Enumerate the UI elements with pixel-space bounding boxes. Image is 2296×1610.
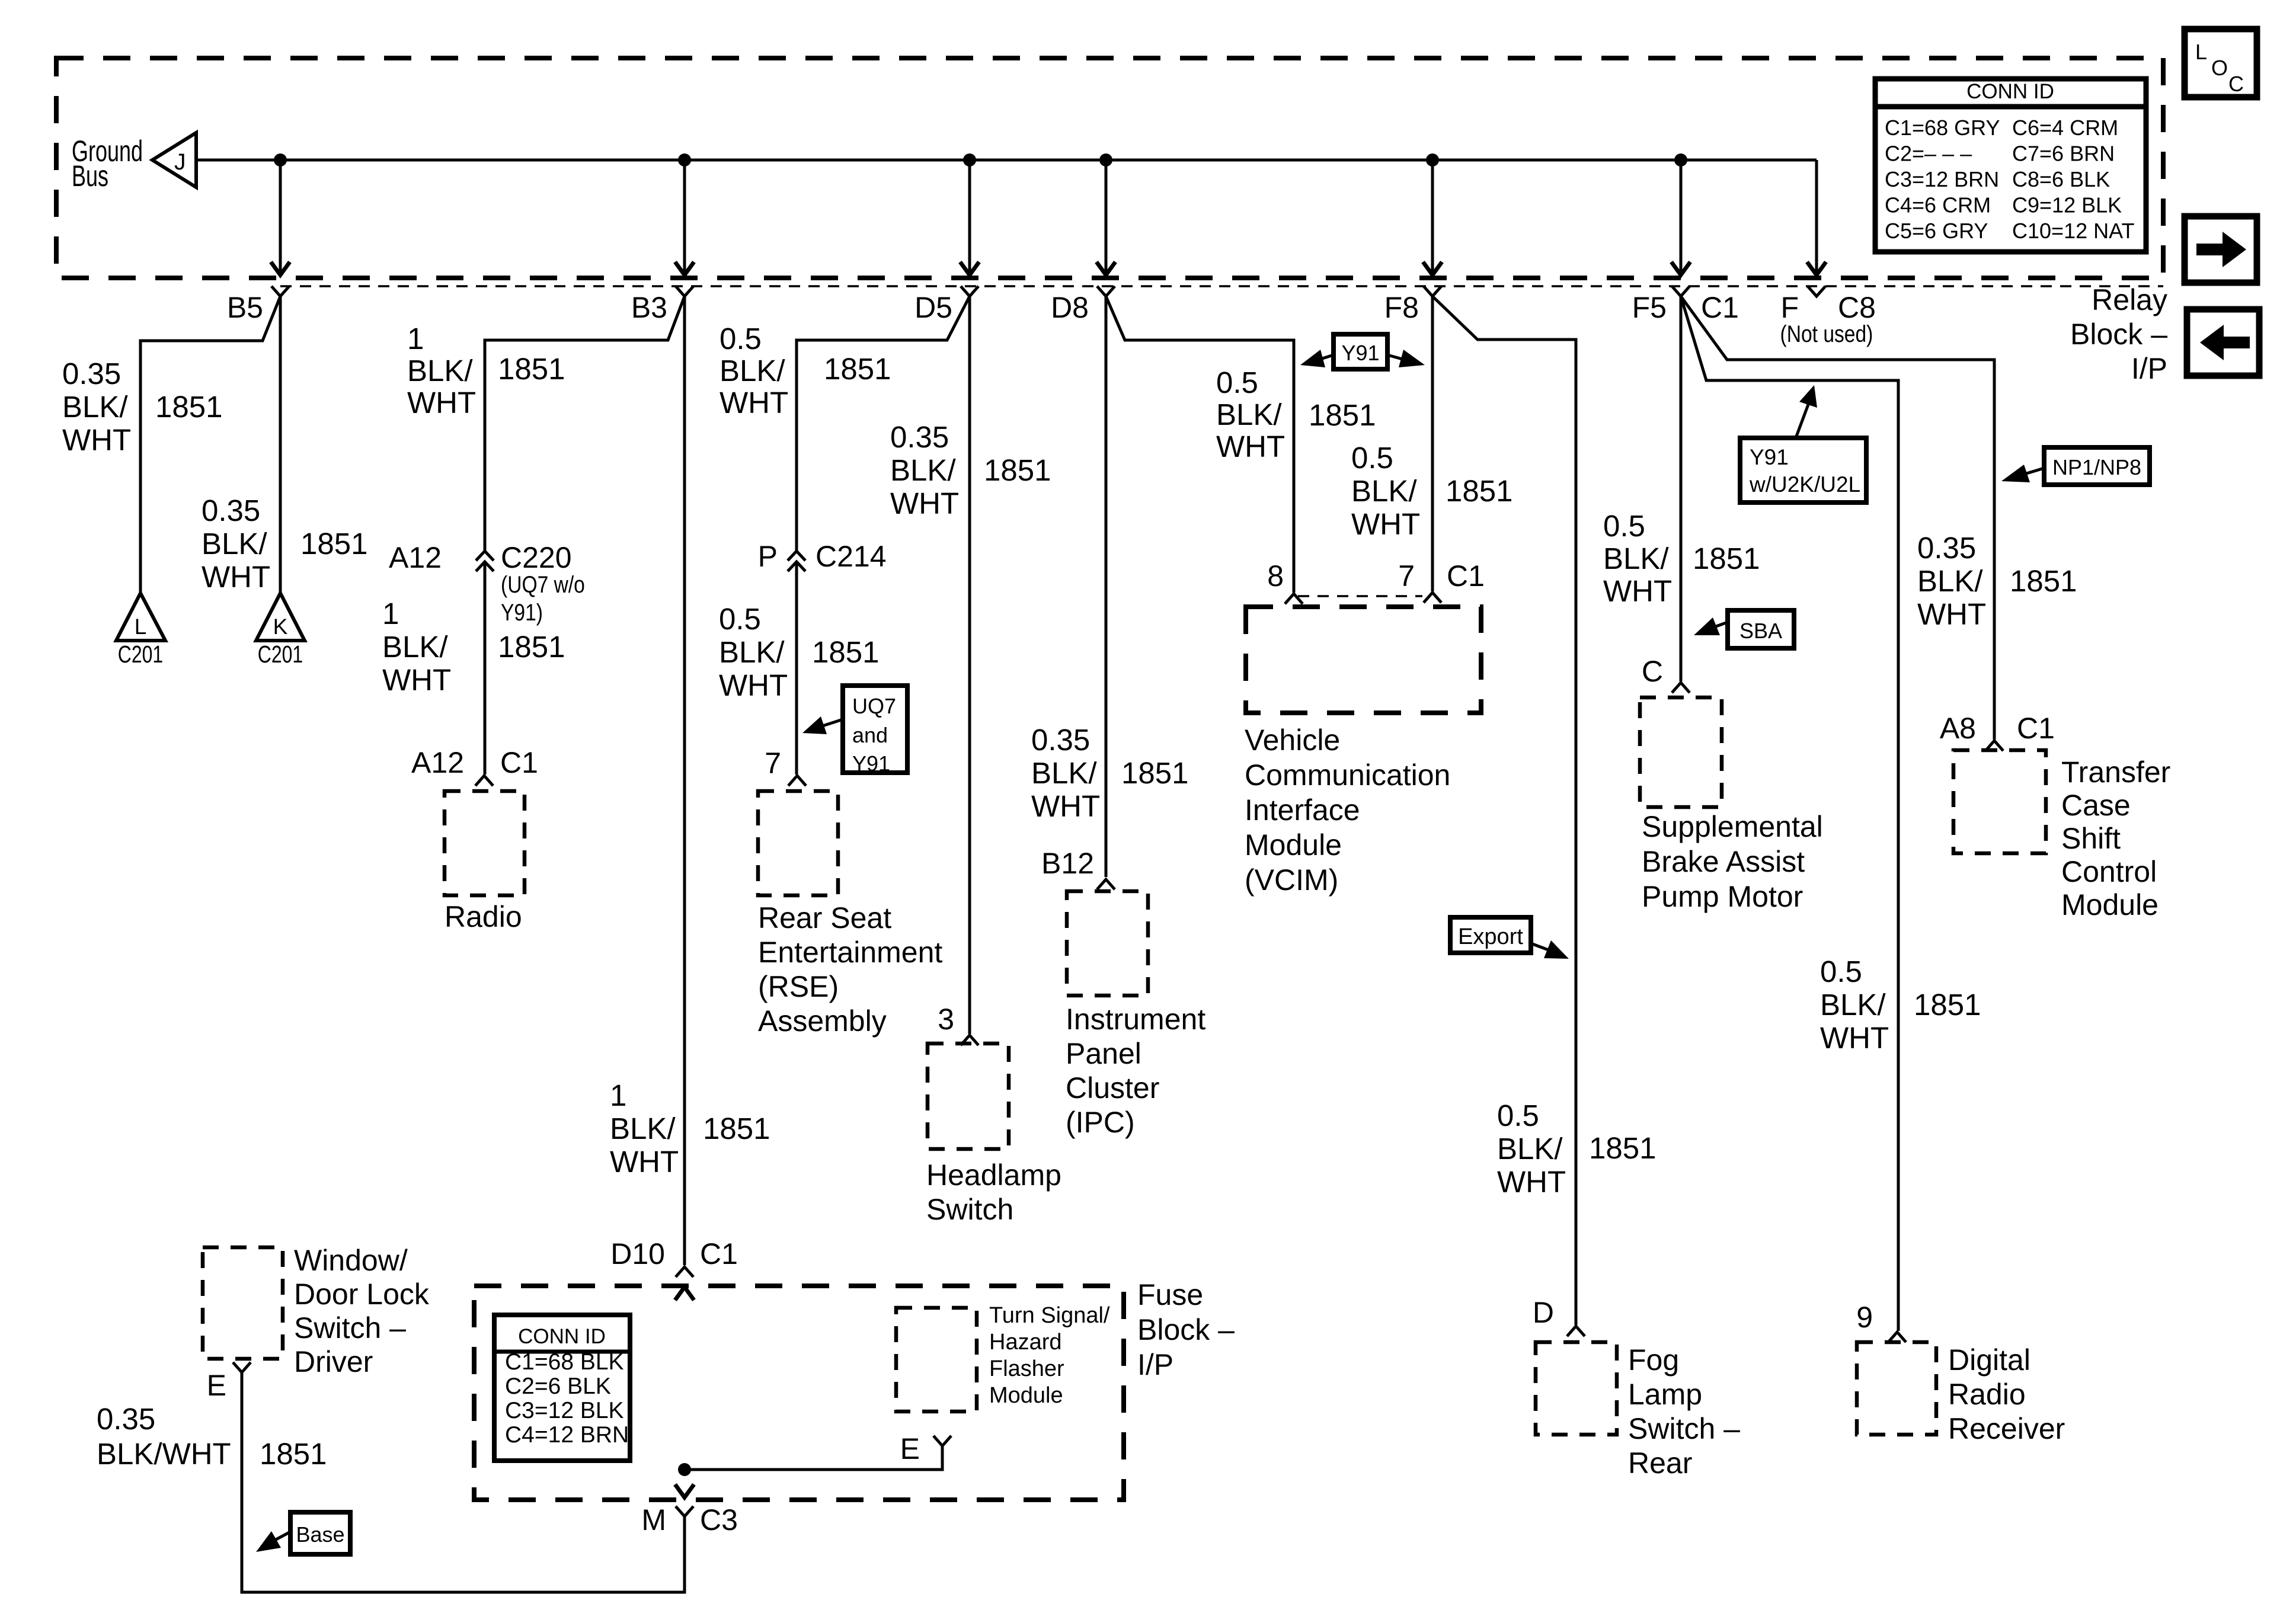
transfer case component box bbox=[1953, 750, 2046, 853]
svg-text:WHT: WHT bbox=[1917, 597, 1986, 631]
svg-text:C1: C1 bbox=[1701, 291, 1739, 324]
RSE component box bbox=[758, 791, 838, 895]
svg-text:C4=12 BRN: C4=12 BRN bbox=[505, 1422, 629, 1448]
relay block I/P boundary (thin dashed line) bbox=[280, 285, 2163, 287]
svg-text:CONN ID: CONN ID bbox=[518, 1325, 606, 1348]
fuse block pin M chevron bbox=[676, 1506, 693, 1516]
arrow into relay block at F8 bbox=[1423, 262, 1442, 275]
svg-text:WHT: WHT bbox=[1820, 1021, 1889, 1055]
svg-text:Y91): Y91) bbox=[501, 599, 543, 625]
svg-text:1: 1 bbox=[407, 322, 424, 356]
svg-text:Y91: Y91 bbox=[1750, 445, 1789, 469]
svg-text:0.35: 0.35 bbox=[202, 494, 260, 527]
svg-text:1851: 1851 bbox=[1446, 474, 1512, 508]
svg-text:Fuse: Fuse bbox=[1137, 1278, 1203, 1311]
callout arrow Y91 right bbox=[1387, 355, 1402, 359]
svg-text:1851: 1851 bbox=[155, 390, 222, 424]
svg-text:BLK/: BLK/ bbox=[1603, 542, 1669, 575]
svg-text:0.5: 0.5 bbox=[1497, 1099, 1539, 1132]
VCIM pins thin dashed link bbox=[1298, 595, 1422, 597]
ground symbol triangle J bbox=[152, 133, 196, 187]
svg-text:Switch –: Switch – bbox=[294, 1311, 406, 1345]
callout Base bbox=[290, 1512, 350, 1554]
svg-text:BLK/: BLK/ bbox=[1031, 756, 1097, 790]
svg-text:1851: 1851 bbox=[703, 1112, 770, 1145]
svg-text:1851: 1851 bbox=[2010, 564, 2077, 598]
svg-text:SBA: SBA bbox=[1739, 619, 1782, 643]
svg-text:Rear: Rear bbox=[1628, 1446, 1692, 1480]
svg-text:L: L bbox=[135, 614, 147, 639]
callout arrow Y91 w/U2K/U2L bbox=[1796, 403, 1809, 438]
fuse block pin D10 chevron bbox=[676, 1267, 693, 1277]
svg-text:BLK/: BLK/ bbox=[1917, 564, 1983, 598]
svg-text:Export: Export bbox=[1458, 924, 1523, 949]
callout NP1/NP8 bbox=[2044, 447, 2150, 485]
radio pin chevron bbox=[475, 776, 493, 786]
svg-text:WHT: WHT bbox=[1351, 507, 1420, 541]
turn signal flasher component box bbox=[896, 1308, 977, 1411]
bus drop to F C8 (not used) bbox=[1815, 160, 1818, 271]
IPC component box bbox=[1067, 891, 1148, 996]
junction dot in fuse block bbox=[678, 1463, 691, 1476]
svg-text:C9=12 BLK: C9=12 BLK bbox=[2012, 193, 2122, 217]
svg-text:Assembly: Assembly bbox=[758, 1004, 887, 1038]
ground bus wire bbox=[196, 159, 1817, 162]
svg-text:Radio: Radio bbox=[1948, 1378, 2026, 1411]
svg-text:7: 7 bbox=[765, 747, 781, 780]
inline connector C214 pin P bbox=[788, 551, 805, 561]
svg-text:B12: B12 bbox=[1041, 847, 1094, 880]
svg-text:BLK/: BLK/ bbox=[407, 354, 473, 388]
svg-text:C1: C1 bbox=[500, 746, 538, 779]
svg-text:BLK/WHT: BLK/WHT bbox=[97, 1437, 231, 1471]
svg-text:C2=– – –: C2=– – – bbox=[1885, 142, 1972, 166]
svg-text:1851: 1851 bbox=[300, 527, 367, 561]
svg-text:1851: 1851 bbox=[260, 1437, 327, 1471]
svg-text:B3: B3 bbox=[631, 291, 667, 324]
svg-text:Flasher: Flasher bbox=[989, 1356, 1064, 1381]
svg-text:NP1/NP8: NP1/NP8 bbox=[2052, 455, 2141, 479]
svg-text:3: 3 bbox=[938, 1003, 954, 1036]
svg-text:(VCIM): (VCIM) bbox=[1245, 863, 1338, 897]
svg-text:C1: C1 bbox=[1447, 559, 1485, 593]
svg-text:C3=12 BRN: C3=12 BRN bbox=[1885, 167, 1999, 191]
relay block pin chevron F8 bbox=[1424, 286, 1441, 296]
svg-text:C220: C220 bbox=[501, 541, 572, 574]
VCIM pin 8 chevron bbox=[1285, 594, 1303, 604]
wire M C3 to window door lock switch bbox=[242, 1372, 685, 1592]
svg-text:BLK/: BLK/ bbox=[610, 1112, 676, 1145]
svg-text:CONN ID: CONN ID bbox=[1966, 80, 2054, 103]
svg-text:BLK/: BLK/ bbox=[1351, 474, 1417, 508]
svg-text:A8: A8 bbox=[1940, 712, 1976, 745]
wire B3 main to fuse block bbox=[683, 296, 686, 1265]
svg-text:D5: D5 bbox=[914, 291, 952, 324]
svg-text:L: L bbox=[2195, 40, 2207, 64]
svg-text:Digital: Digital bbox=[1948, 1343, 2030, 1377]
bus drop wire to B5 bbox=[279, 160, 282, 271]
junction dot on ground bus at B5 bbox=[274, 153, 287, 167]
relay block pin chevron D5 bbox=[961, 286, 978, 296]
svg-text:A12: A12 bbox=[411, 746, 464, 779]
svg-text:0.5: 0.5 bbox=[1351, 441, 1393, 475]
svg-text:1851: 1851 bbox=[498, 630, 565, 664]
svg-text:0.35: 0.35 bbox=[97, 1402, 155, 1436]
svg-text:Door Lock: Door Lock bbox=[294, 1278, 430, 1311]
wire D8 main to IPC bbox=[1105, 296, 1108, 877]
VCIM pin 7 chevron bbox=[1424, 593, 1441, 603]
svg-text:C8: C8 bbox=[1838, 291, 1876, 324]
svg-text:Transfer: Transfer bbox=[2061, 756, 2170, 789]
svg-text:(UQ7 w/o: (UQ7 w/o bbox=[501, 571, 585, 597]
svg-text:WHT: WHT bbox=[1216, 430, 1285, 463]
wire radio branch below connector C220 bbox=[484, 561, 487, 774]
ground bus dashed boundary box bbox=[56, 58, 2163, 278]
svg-text:1851: 1851 bbox=[812, 635, 879, 669]
svg-text:M: M bbox=[641, 1503, 666, 1537]
svg-text:Brake Assist: Brake Assist bbox=[1642, 845, 1805, 878]
svg-text:C: C bbox=[1642, 655, 1663, 688]
svg-text:Vehicle: Vehicle bbox=[1245, 724, 1340, 757]
svg-text:C1=68 BLK: C1=68 BLK bbox=[505, 1349, 624, 1375]
callout Y91 (two arrows) bbox=[1334, 334, 1387, 369]
svg-text:Relay: Relay bbox=[2092, 283, 2167, 316]
svg-text:9: 9 bbox=[1856, 1301, 1873, 1334]
svg-text:Radio: Radio bbox=[445, 900, 522, 933]
svg-text:F8: F8 bbox=[1384, 291, 1419, 324]
svg-text:D: D bbox=[1533, 1296, 1554, 1329]
svg-text:Window/: Window/ bbox=[294, 1244, 408, 1277]
IPC pin chevron bbox=[1097, 879, 1115, 889]
svg-text:E: E bbox=[900, 1432, 920, 1465]
svg-text:0.5: 0.5 bbox=[719, 602, 761, 636]
svg-text:BLK/: BLK/ bbox=[1216, 398, 1282, 431]
bus drop wire to D8 bbox=[1105, 160, 1108, 271]
callout Y91 w/U2K/U2L bbox=[1740, 438, 1866, 502]
page-back arrow box bbox=[2187, 309, 2259, 376]
svg-text:Control: Control bbox=[2061, 855, 2157, 888]
radio component box bbox=[445, 791, 525, 895]
svg-text:Module: Module bbox=[1245, 828, 1342, 862]
svg-text:WHT: WHT bbox=[1497, 1165, 1566, 1199]
wire B5 to splice bbox=[279, 296, 282, 593]
svg-text:1851: 1851 bbox=[824, 352, 891, 386]
svg-text:0.35: 0.35 bbox=[62, 357, 121, 391]
svg-text:1851: 1851 bbox=[1914, 988, 1981, 1022]
svg-text:BLK/: BLK/ bbox=[720, 354, 785, 388]
wire B5 left branch bbox=[140, 296, 280, 593]
svg-text:1851: 1851 bbox=[1309, 398, 1376, 432]
svg-text:P: P bbox=[758, 540, 778, 573]
svg-text:BLK/: BLK/ bbox=[890, 453, 956, 487]
callout arrow UQ7 bbox=[819, 719, 843, 727]
svg-text:C214: C214 bbox=[816, 540, 887, 573]
arrow into relay block at D8 bbox=[1096, 262, 1115, 275]
junction dot on ground bus at F5 bbox=[1674, 153, 1687, 167]
wire C1 branch to transfer case module bbox=[1681, 296, 1994, 740]
relay block pin chevron D8 bbox=[1097, 286, 1115, 296]
svg-text:Shift: Shift bbox=[2061, 822, 2121, 855]
CONN ID table fuse block bbox=[494, 1315, 630, 1461]
arrow into relay block at F5 bbox=[1671, 262, 1690, 275]
headlamp switch component box bbox=[928, 1044, 1009, 1149]
svg-text:Lamp: Lamp bbox=[1628, 1378, 1702, 1411]
svg-text:Y91: Y91 bbox=[1341, 341, 1379, 365]
svg-text:0.35: 0.35 bbox=[890, 420, 949, 454]
wire F8 branch to fog lamp switch bbox=[1432, 296, 1576, 1325]
svg-text:WHT: WHT bbox=[890, 486, 959, 520]
wire RSE branch below connector C214 bbox=[795, 561, 798, 774]
digital radio component box bbox=[1857, 1342, 1936, 1435]
relay block pin chevron F5 bbox=[1672, 286, 1690, 296]
svg-text:1851: 1851 bbox=[1121, 756, 1188, 790]
svg-text:J: J bbox=[174, 149, 186, 175]
svg-text:Block –: Block – bbox=[1137, 1313, 1235, 1346]
svg-text:C2=6 BLK: C2=6 BLK bbox=[505, 1374, 611, 1399]
svg-text:7: 7 bbox=[1398, 559, 1415, 593]
svg-text:Module: Module bbox=[2061, 888, 2159, 921]
svg-text:C3: C3 bbox=[700, 1503, 738, 1537]
svg-text:Cluster: Cluster bbox=[1066, 1071, 1159, 1105]
svg-text:1: 1 bbox=[382, 597, 399, 630]
svg-text:WHT: WHT bbox=[382, 663, 451, 697]
svg-text:Receiver: Receiver bbox=[1948, 1412, 2065, 1445]
svg-text:0.5: 0.5 bbox=[1820, 955, 1862, 988]
svg-text:I/P: I/P bbox=[1137, 1348, 1173, 1381]
window switch pin E chevron bbox=[233, 1362, 251, 1372]
svg-text:Switch: Switch bbox=[926, 1193, 1013, 1226]
arrow into relay block at B5 bbox=[271, 262, 290, 275]
callout UQ7 and Y91 bbox=[843, 686, 907, 773]
svg-text:Interface: Interface bbox=[1245, 793, 1360, 827]
svg-text:E: E bbox=[207, 1369, 226, 1402]
junction dot on ground bus at D5 bbox=[963, 153, 976, 167]
svg-text:BLK/: BLK/ bbox=[202, 527, 267, 561]
bus drop wire to F8 bbox=[1431, 160, 1434, 271]
svg-text:8: 8 bbox=[1267, 559, 1284, 593]
svg-text:C4=6 CRM: C4=6 CRM bbox=[1885, 193, 1991, 217]
arrow out of fuse block at M bbox=[675, 1484, 694, 1497]
svg-text:Pump Motor: Pump Motor bbox=[1642, 880, 1803, 913]
svg-text:Instrument: Instrument bbox=[1066, 1003, 1205, 1036]
svg-text:BLK/: BLK/ bbox=[1497, 1132, 1563, 1166]
svg-text:F5: F5 bbox=[1632, 291, 1667, 324]
transfer case pin chevron bbox=[1985, 741, 2003, 751]
svg-text:C1: C1 bbox=[700, 1237, 738, 1270]
svg-text:1851: 1851 bbox=[1693, 542, 1760, 575]
svg-text:WHT: WHT bbox=[1031, 789, 1100, 823]
svg-text:C201: C201 bbox=[258, 641, 303, 668]
wire C1 branch to digital radio receiver bbox=[1681, 296, 1898, 1331]
arrow into relay block at F bbox=[1807, 262, 1826, 275]
svg-text:WHT: WHT bbox=[1603, 574, 1672, 608]
svg-text:(IPC): (IPC) bbox=[1066, 1106, 1135, 1139]
svg-text:F: F bbox=[1780, 291, 1799, 324]
svg-text:Supplemental: Supplemental bbox=[1642, 810, 1823, 843]
svg-text:D10: D10 bbox=[610, 1237, 665, 1270]
inline connector C220 pin A12 bbox=[476, 551, 494, 561]
svg-text:Y91: Y91 bbox=[852, 751, 890, 776]
bus drop wire to F5 bbox=[1680, 160, 1683, 271]
svg-text:WHT: WHT bbox=[720, 386, 788, 420]
svg-text:WHT: WHT bbox=[719, 668, 788, 702]
wire D8 branch to VCIM pin 8 bbox=[1106, 296, 1294, 593]
headlamp pin chevron bbox=[961, 1035, 978, 1045]
svg-text:O: O bbox=[2211, 56, 2228, 80]
ground ref triangle L bbox=[116, 593, 165, 641]
callout arrow Y91 left bbox=[1320, 355, 1334, 359]
relay block pin chevron B5 bbox=[271, 286, 289, 296]
svg-text:BLK/: BLK/ bbox=[719, 635, 785, 669]
wire B3 left branch to radio bbox=[485, 296, 685, 552]
svg-text:Case: Case bbox=[2061, 789, 2131, 822]
svg-text:1851: 1851 bbox=[1589, 1131, 1656, 1165]
svg-text:D8: D8 bbox=[1051, 291, 1089, 324]
arrow into fuse block at D10 bbox=[675, 1287, 694, 1300]
fuse block I/P dashed box bbox=[474, 1286, 1124, 1500]
wire D5 main to headlamp switch bbox=[968, 296, 971, 1034]
svg-text:UQ7: UQ7 bbox=[852, 694, 896, 718]
svg-text:Base: Base bbox=[296, 1522, 344, 1547]
arrow into relay block at B3 bbox=[675, 262, 694, 275]
bus drop wire to D5 bbox=[968, 160, 971, 271]
svg-text:w/U2K/U2L: w/U2K/U2L bbox=[1749, 472, 1860, 497]
SBA pump motor component box bbox=[1640, 697, 1722, 807]
fog lamp switch component box bbox=[1536, 1342, 1617, 1435]
svg-text:BLK/: BLK/ bbox=[62, 390, 128, 424]
svg-text:Bus: Bus bbox=[72, 160, 108, 193]
svg-text:Hazard: Hazard bbox=[989, 1330, 1062, 1355]
fog lamp pin chevron bbox=[1567, 1326, 1585, 1336]
svg-text:0.5: 0.5 bbox=[1216, 366, 1258, 399]
svg-text:0.5: 0.5 bbox=[1603, 509, 1645, 543]
digital radio pin chevron bbox=[1888, 1332, 1906, 1342]
page-forward arrow box bbox=[2185, 216, 2257, 283]
svg-text:BLK/: BLK/ bbox=[1820, 988, 1886, 1022]
svg-text:WHT: WHT bbox=[407, 386, 476, 420]
svg-text:B5: B5 bbox=[227, 291, 263, 324]
wire F5 to SBA pump motor bbox=[1680, 296, 1683, 681]
svg-text:Panel: Panel bbox=[1066, 1037, 1141, 1070]
svg-text:WHT: WHT bbox=[610, 1145, 679, 1179]
wire turn signal E to junction bbox=[685, 1446, 942, 1470]
window door lock switch component box bbox=[203, 1247, 283, 1359]
svg-text:C: C bbox=[2228, 72, 2244, 96]
svg-text:WHT: WHT bbox=[202, 560, 270, 594]
svg-text:1: 1 bbox=[610, 1078, 626, 1112]
svg-text:Communication: Communication bbox=[1245, 758, 1450, 792]
svg-text:C10=12 NAT: C10=12 NAT bbox=[2012, 219, 2134, 243]
svg-text:0.35: 0.35 bbox=[1031, 723, 1090, 757]
svg-text:I/P: I/P bbox=[2131, 352, 2167, 385]
svg-text:1851: 1851 bbox=[498, 352, 565, 386]
svg-text:0.5: 0.5 bbox=[720, 322, 762, 356]
svg-text:0.35: 0.35 bbox=[1917, 531, 1976, 565]
junction dot on ground bus at D8 bbox=[1099, 153, 1112, 167]
svg-text:(RSE): (RSE) bbox=[758, 970, 839, 1003]
wire D5 left branch to RSE bbox=[797, 296, 970, 552]
svg-text:A12: A12 bbox=[389, 541, 442, 574]
callout arrow Export bbox=[1531, 943, 1550, 950]
callout arrow Base bbox=[274, 1532, 290, 1541]
svg-text:C3=12 BLK: C3=12 BLK bbox=[505, 1398, 624, 1423]
wire F8 main to VCIM pin 7 bbox=[1431, 296, 1434, 591]
bus drop wire to B3 bbox=[683, 160, 686, 271]
svg-text:1851: 1851 bbox=[984, 453, 1051, 487]
svg-text:Switch –: Switch – bbox=[1628, 1412, 1740, 1445]
svg-text:Driver: Driver bbox=[294, 1345, 373, 1378]
svg-text:C8=6 BLK: C8=6 BLK bbox=[2012, 167, 2110, 191]
LOC locator box bbox=[2185, 29, 2257, 97]
junction dot on ground bus at F8 bbox=[1426, 153, 1439, 167]
arrow into relay block at D5 bbox=[960, 262, 979, 275]
svg-text:WHT: WHT bbox=[62, 423, 131, 457]
svg-text:and: and bbox=[852, 723, 888, 747]
CONN ID table relay block bbox=[1875, 79, 2146, 252]
svg-text:C201: C201 bbox=[118, 641, 163, 668]
callout arrow SBA bbox=[1713, 622, 1728, 628]
svg-text:Fog: Fog bbox=[1628, 1343, 1679, 1377]
svg-text:Rear Seat: Rear Seat bbox=[758, 901, 891, 934]
RSE pin chevron bbox=[788, 776, 806, 786]
relay block pin chevron F bbox=[1808, 286, 1825, 296]
callout arrow NP1/NP8 bbox=[2025, 468, 2044, 474]
SBA pump pin chevron bbox=[1672, 683, 1690, 693]
svg-text:C1: C1 bbox=[2017, 712, 2055, 745]
svg-text:BLK/: BLK/ bbox=[382, 630, 448, 664]
svg-text:C7=6 BRN: C7=6 BRN bbox=[2012, 142, 2115, 166]
turn signal flasher pin E chevron bbox=[933, 1436, 951, 1446]
ground ref triangle K bbox=[256, 593, 305, 641]
svg-text:C5=6 GRY: C5=6 GRY bbox=[1885, 219, 1988, 243]
svg-text:Block –: Block – bbox=[2070, 318, 2167, 351]
svg-text:Entertainment: Entertainment bbox=[758, 936, 942, 969]
svg-text:Headlamp: Headlamp bbox=[926, 1158, 1061, 1192]
svg-text:C1=68 GRY: C1=68 GRY bbox=[1885, 116, 2000, 140]
svg-text:Module: Module bbox=[989, 1383, 1063, 1408]
relay block pin chevron B3 bbox=[676, 286, 693, 296]
VCIM component box bbox=[1246, 607, 1481, 713]
callout SBA bbox=[1728, 610, 1794, 648]
svg-text:(Not used): (Not used) bbox=[1780, 321, 1873, 347]
svg-text:K: K bbox=[273, 614, 288, 639]
svg-text:Turn Signal/: Turn Signal/ bbox=[989, 1303, 1110, 1328]
junction dot on ground bus at B3 bbox=[678, 153, 691, 167]
callout Export bbox=[1450, 917, 1531, 953]
svg-text:C6=4 CRM: C6=4 CRM bbox=[2012, 116, 2118, 140]
